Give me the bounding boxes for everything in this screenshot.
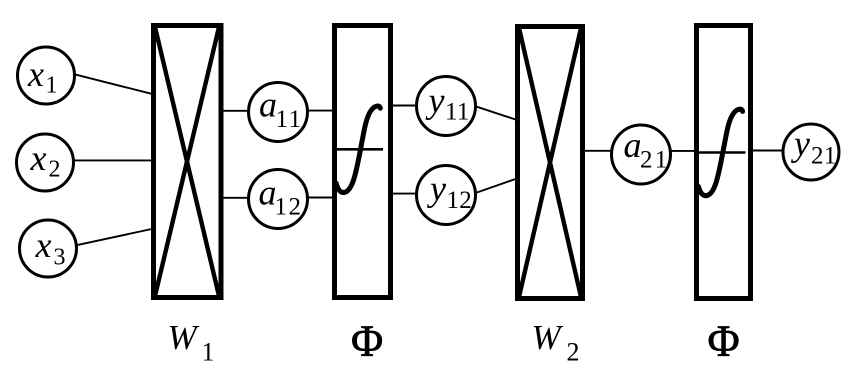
input node x3 (20, 220, 77, 277)
hidden node y12 (417, 166, 476, 225)
node a21 (612, 125, 671, 184)
svg-text:21: 21 (811, 143, 837, 170)
svg-text:W: W (168, 318, 200, 357)
svg-text:21: 21 (640, 147, 669, 174)
wire Phi2 to y21 (751, 150, 788, 152)
wire a21 to Phi2 (641, 150, 698, 152)
svg-text:11: 11 (276, 106, 303, 133)
svg-text:1: 1 (46, 73, 58, 99)
svg-text:y: y (427, 169, 446, 209)
weight matrix box W2 (518, 27, 583, 299)
hidden node a12 (249, 170, 308, 229)
hidden node y11 (417, 77, 476, 136)
wire W1 to a12 (221, 197, 278, 199)
svg-text:3: 3 (54, 245, 66, 271)
input node x2 (17, 134, 74, 191)
wire a11 to Phi1 (278, 110, 335, 112)
wire y11 to W2 (474, 106, 518, 121)
wire x1 to W1 (74, 74, 154, 94)
activation box Phi1 (335, 26, 391, 298)
weight matrix box W1 (154, 26, 222, 298)
svg-text:x: x (27, 54, 44, 94)
svg-text:x: x (35, 225, 52, 265)
svg-text:Φ: Φ (351, 317, 383, 366)
svg-text:y: y (791, 124, 810, 164)
svg-text:a: a (624, 125, 642, 165)
activation box Phi2 (697, 26, 751, 299)
wire W1 to a11 (221, 110, 278, 112)
svg-text:12: 12 (447, 187, 473, 214)
svg-text:11: 11 (445, 99, 470, 126)
label W1 (168, 318, 215, 367)
svg-text:12: 12 (275, 194, 303, 221)
svg-text:2: 2 (567, 338, 580, 367)
label W2 (532, 318, 580, 367)
input node x1 (18, 47, 75, 104)
wire W2 to a21 (583, 150, 641, 152)
svg-text:Φ: Φ (708, 317, 740, 366)
label Phi2 (708, 317, 740, 366)
svg-text:1: 1 (202, 338, 215, 367)
output node y21 (783, 124, 839, 181)
wire a12 to Phi1 (278, 197, 335, 199)
wire Phi1 to y11 (390, 105, 446, 107)
svg-text:2: 2 (49, 157, 61, 183)
hidden node a11 (249, 83, 308, 142)
svg-text:x: x (30, 138, 47, 178)
label Phi1 (351, 317, 383, 366)
svg-text:y: y (426, 81, 445, 121)
wire Phi1 to y12 (390, 193, 446, 195)
wire x2 to W1 (73, 159, 154, 161)
svg-text:a: a (259, 85, 277, 125)
svg-text:W: W (532, 318, 564, 357)
wire x3 to W1 (76, 229, 154, 246)
wire y12 to W2 (474, 178, 518, 193)
